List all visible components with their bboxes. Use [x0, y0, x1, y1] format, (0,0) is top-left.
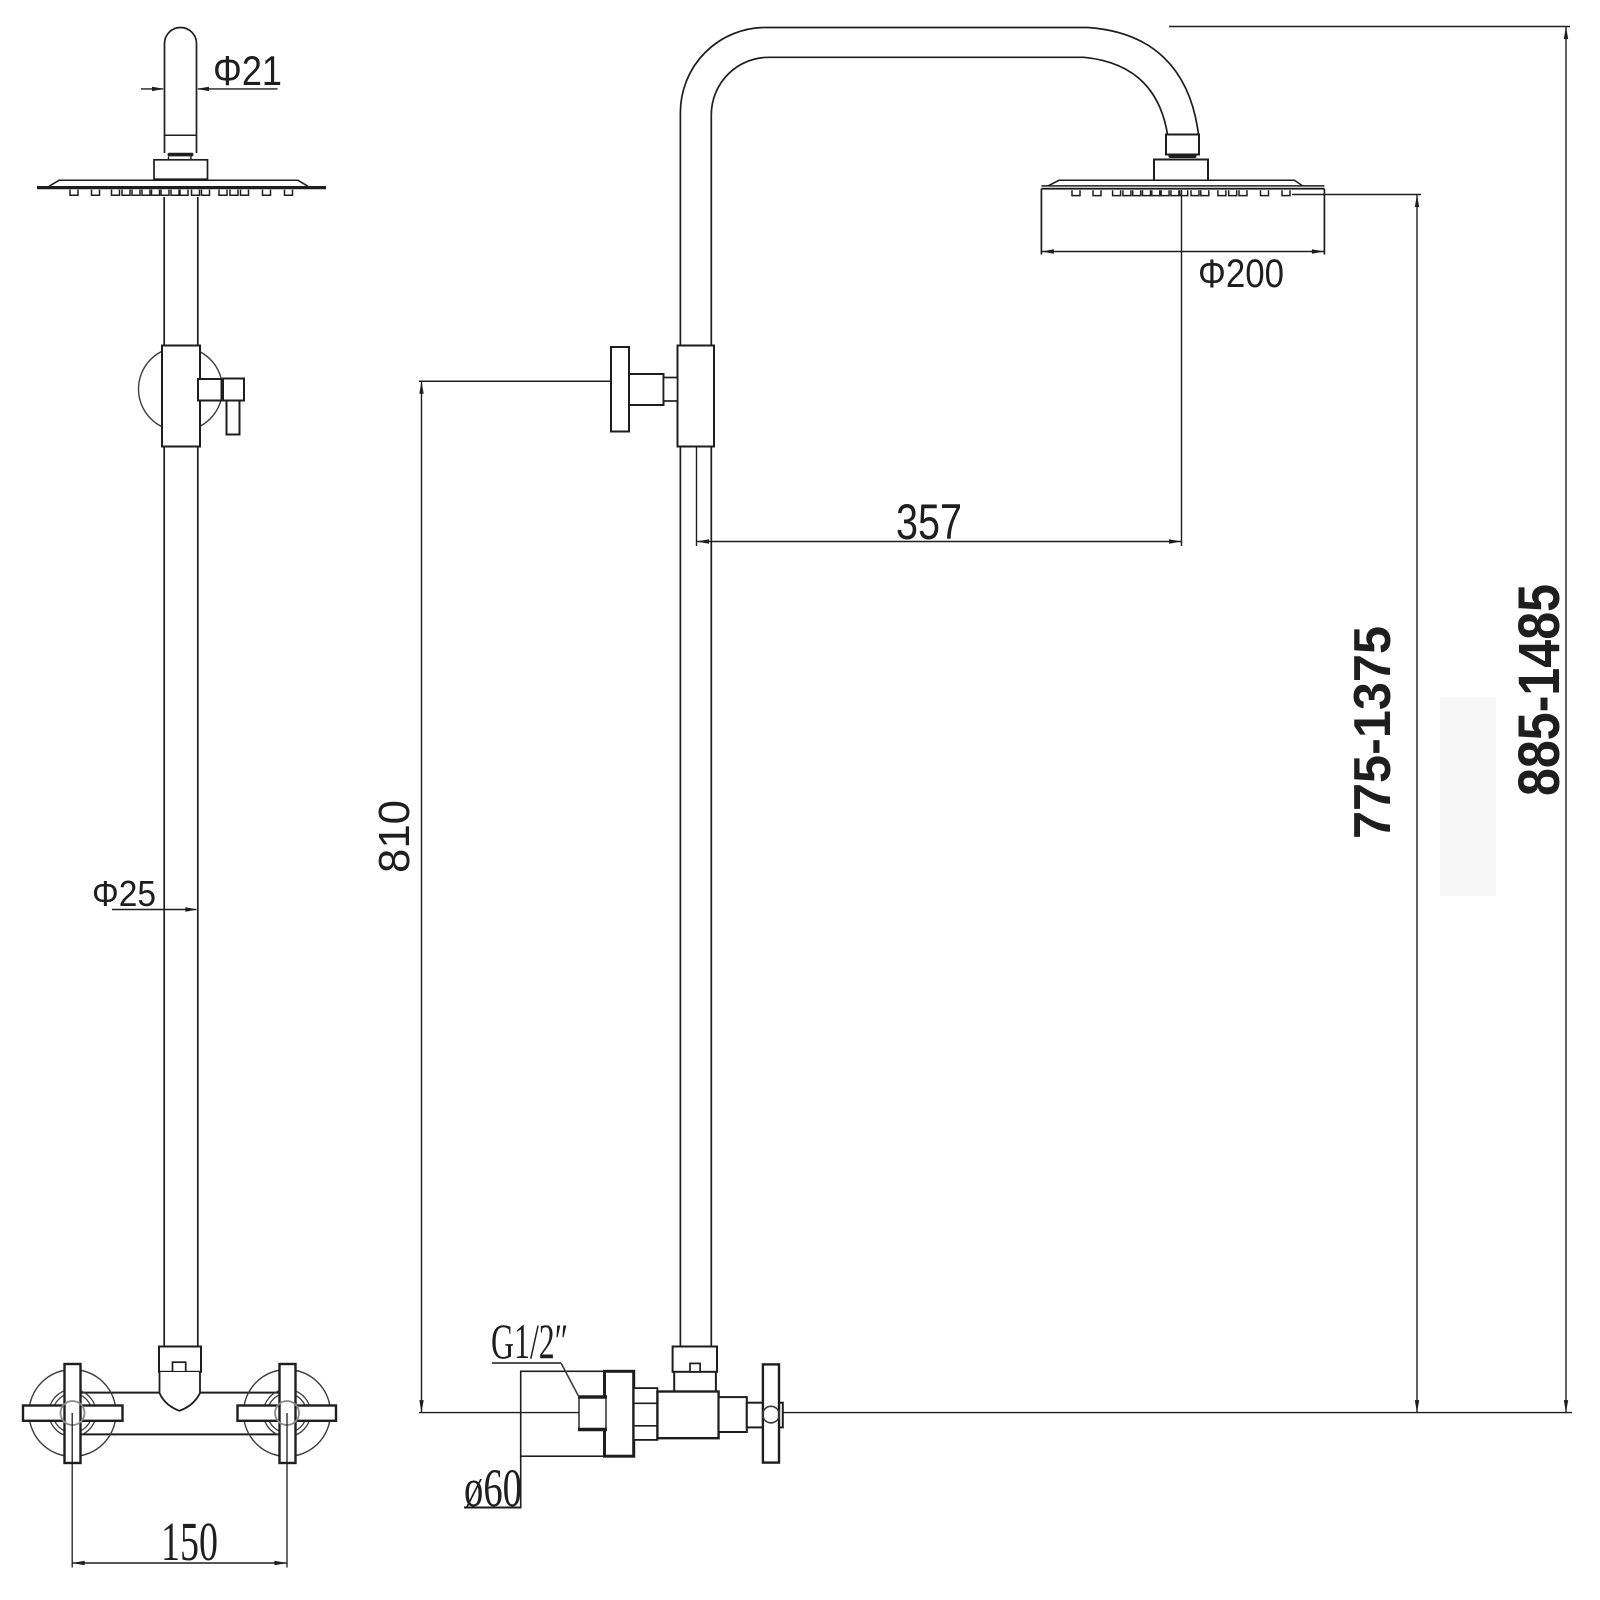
- dimension phi25: [112, 909, 196, 911]
- node gooseneck arm inner line: [711, 57, 1167, 345]
- dimension 885-1485: [1169, 26, 1570, 28]
- node G1/2 inlet fitting: [579, 1397, 606, 1430]
- node valve escutcheon box side: [521, 1371, 634, 1456]
- node diverter knob front: [198, 379, 222, 401]
- svg-text:150: 150: [161, 1511, 218, 1572]
- node valve body bar front: [77, 1392, 292, 1394]
- node right escutcheon circle: [244, 1370, 331, 1457]
- node valve vertical body side: [673, 1372, 675, 1392]
- node right cross handle: [238, 1406, 337, 1421]
- node valve connector block front: [159, 1347, 201, 1372]
- node shower head side view: [1048, 180, 1303, 186]
- node gooseneck arm outer line: [680, 28, 1198, 346]
- node valve connector block side: [673, 1347, 717, 1372]
- dimension 810: [419, 380, 611, 382]
- node slider block side: [678, 346, 715, 447]
- svg-text:357: 357: [896, 494, 962, 550]
- dimension 150: [71, 1413, 73, 1568]
- svg-text:775-1375: 775-1375: [1344, 626, 1402, 839]
- dimension 357: [696, 447, 698, 547]
- svg-text:885-1485: 885-1485: [1507, 584, 1572, 796]
- node valve barrel side: [657, 1392, 718, 1439]
- node left cross handle: [23, 1406, 123, 1421]
- node nozzles side: [1072, 190, 1290, 195]
- node arm end connector: [1166, 135, 1199, 155]
- node head mount block side: [1154, 160, 1208, 181]
- svg-text:Φ25: Φ25: [92, 873, 156, 914]
- svg-text:Φ200: Φ200: [1198, 252, 1284, 296]
- svg-text:G1/2″: G1/2″: [491, 1313, 568, 1369]
- dimension phi200: [1041, 251, 1324, 253]
- svg-text:ø60: ø60: [464, 1458, 522, 1518]
- node left escutcheon circle: [29, 1370, 116, 1457]
- node hex nut side: [634, 1388, 658, 1440]
- dimension 775-1375: [1292, 194, 1421, 196]
- node nozzles front: [70, 190, 293, 196]
- node slider block front: [162, 346, 200, 447]
- wire bottom reference datum line: [419, 1412, 580, 1414]
- node spout front: [160, 1372, 201, 1393]
- node shower head plate front: [49, 180, 308, 186]
- node collar band dark: [168, 153, 194, 157]
- node head connector block front: [154, 160, 208, 179]
- node riser pipe side: [679, 447, 681, 1347]
- node flange band side: [605, 1371, 634, 1456]
- node handle bar side: [763, 1364, 779, 1462]
- svg-text:810: 810: [370, 800, 419, 873]
- node wall bracket escutcheon circle front: [139, 347, 223, 431]
- dimension phi21: [141, 88, 163, 90]
- node wall bracket side: [611, 347, 629, 432]
- node riser pipe front: [163, 197, 165, 1347]
- svg-text:Φ21: Φ21: [213, 47, 282, 94]
- node top inlet pipe front (phi21): [165, 28, 197, 154]
- node hub circle side: [763, 1406, 780, 1423]
- node neck side: [719, 1397, 747, 1432]
- node head center extension line: [1181, 190, 1183, 546]
- node hub block side: [747, 1403, 783, 1428]
